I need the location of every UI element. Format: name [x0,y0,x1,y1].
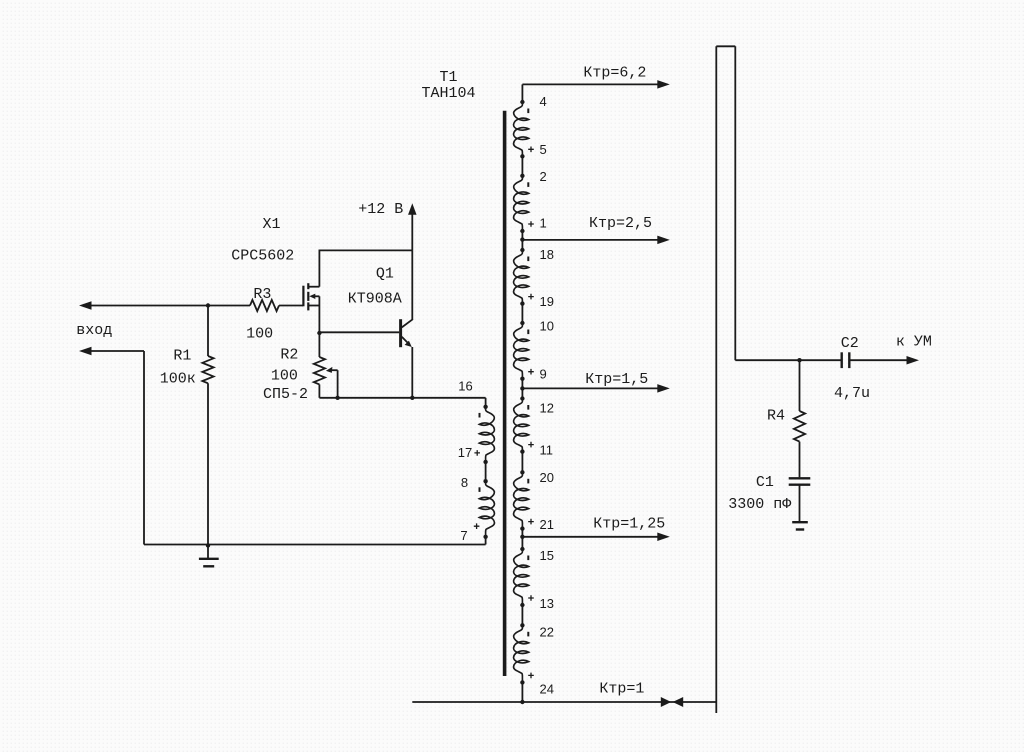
pin mark 8 start tick [479,487,481,492]
wire secondary 24 to bottom rail [521,682,523,702]
svg-text:21: 21 [540,517,554,532]
svg-text:15: 15 [540,548,554,563]
wire input upper with arrow [79,301,92,310]
wire feedback vertical right [734,46,736,360]
svg-text:9: 9 [540,367,547,382]
node wiper junction [335,396,339,400]
pin mark 22 start tick [527,632,529,637]
optocoupler MOSFET X1 drain lead [309,286,319,288]
wire +12V to collector [411,250,413,320]
wire output node horizontal [735,359,841,361]
svg-text:вход: вход [76,322,112,339]
wire feedback bottom stub [715,702,717,713]
svg-text:100к: 100к [160,371,196,388]
transistor Q1 collector [402,319,413,327]
transformer secondary winding 20-21 [520,470,524,474]
wire C1 to ground [799,485,801,523]
transformer secondary winding 12-11 [520,396,524,400]
pin mark 4 start tick [527,109,529,114]
potentiometer R2 wiper arrow [326,367,333,373]
resistor R1 [207,307,209,356]
wire primary interwinding [485,462,487,481]
svg-text:16: 16 [458,379,472,394]
resistor R3 [208,305,250,307]
svg-text:R3: R3 [253,286,271,303]
power +12V arrow [408,203,417,215]
transistor Q1 emitter with arrow [402,337,409,344]
transistor Q1 base bar [399,319,402,347]
svg-text:CPC5602: CPC5602 [231,248,294,265]
wire feedback vertical left [715,46,717,702]
svg-text:7: 7 [460,528,467,543]
wire bottom rail Ктр=1 [412,701,716,703]
transformer secondary winding 10-9 [520,321,524,325]
wire tap 21-15 with node [521,529,523,549]
svg-text:ТАН104: ТАН104 [421,85,475,102]
svg-text:C1: C1 [756,474,774,491]
transformer T1 core [503,111,507,676]
output arrow Ктр=1,25 [657,533,670,542]
node ground junction [206,543,210,547]
svg-text:R4: R4 [767,408,785,425]
svg-text:17: 17 [458,445,472,460]
pin mark 12 start tick [527,405,529,410]
node output junction [797,358,801,362]
wire tap 9-12 with node [521,379,523,399]
pin mark 16 start tick [479,413,481,418]
output arrow Ктр=2,5 [657,236,670,245]
pin mark 7 plus [474,523,480,529]
svg-text:19: 19 [540,294,554,309]
svg-text:24: 24 [540,681,554,696]
output arrows Ктр=1 double [661,697,671,707]
svg-text:Ктр=1,25: Ктр=1,25 [593,516,665,533]
svg-text:Ктр=1,5: Ктр=1,5 [585,371,648,388]
wire emitter down [411,347,413,398]
wire tap Ктр=1,5 [522,387,658,389]
svg-text:КТ908А: КТ908А [348,291,402,308]
svg-text:к УМ: к УМ [896,334,932,351]
transformer secondary winding 18-19 [520,248,524,252]
pin mark 13 plus [528,595,534,601]
svg-text:100: 100 [271,368,298,385]
pin mark 18 start tick [527,257,529,262]
svg-text:13: 13 [540,596,554,611]
ground symbol right [792,521,808,523]
wire base lead [319,331,399,333]
optocoupler MOSFET X1 channel [307,283,309,289]
wire primary bottom to ground rail [485,537,487,545]
ground symbol left [207,546,209,559]
pin mark 2 start tick [527,182,529,187]
svg-text:5: 5 [540,142,547,157]
svg-text:12: 12 [540,401,554,416]
resistor R4 [799,360,801,411]
pin mark 10 start tick [527,330,529,335]
transformer secondary winding 2-1 [520,174,524,178]
wire secondary 11-20 [521,452,523,473]
transformer primary winding 16-17 [483,405,487,409]
wire emitter to primary [412,397,485,399]
wire tap 1-18 with node [521,231,523,250]
pin mark 9 plus [528,369,534,375]
wire +12V rail [319,249,413,251]
wire secondary 13-22 [521,605,523,625]
pin mark 21 plus [528,519,534,525]
svg-text:Ктр=1: Ктр=1 [599,680,644,697]
pin mark 1 plus [528,221,534,227]
svg-text:Ктр=2,5: Ктр=2,5 [589,215,652,232]
svg-text:T1: T1 [439,69,457,86]
transformer secondary winding 15-13 [520,547,524,551]
svg-text:C2: C2 [841,335,859,352]
node emitter junction [410,396,414,400]
svg-text:R1: R1 [173,348,191,365]
svg-text:8: 8 [461,475,468,490]
svg-text:4,7u: 4,7u [834,385,870,402]
svg-text:10: 10 [540,319,554,334]
transformer secondary winding 22-24 [520,623,524,627]
svg-text:18: 18 [540,247,554,262]
wire input lower with arrow [79,347,92,356]
wire tap Ктр=1,25 [522,536,658,538]
svg-text:2: 2 [540,169,547,184]
pin mark 5 plus [528,147,534,153]
wire secondary 5-2 [521,156,523,176]
output arrow Ктр=6,2 [657,80,670,89]
svg-text:СП5-2: СП5-2 [263,386,308,403]
node junction R1 gate [206,303,210,307]
svg-text:11: 11 [540,443,554,458]
svg-text:1: 1 [540,216,547,231]
pin mark 17 plus [474,450,480,456]
capacitor C1 [789,477,811,479]
pin mark 24 plus [528,673,534,679]
svg-text:22: 22 [540,624,554,639]
svg-text:100: 100 [246,326,273,343]
svg-text:+12 В: +12 В [358,201,403,218]
svg-text:X1: X1 [262,216,280,233]
pin mark 20 start tick [527,479,529,484]
pin mark 11 plus [528,442,534,448]
svg-text:R2: R2 [280,347,298,364]
transformer primary winding 8-7 [483,479,487,483]
node base-R2 junction [317,331,321,335]
svg-text:3300 пФ: 3300 пФ [728,496,791,513]
svg-text:Q1: Q1 [376,265,394,282]
wire feedback top [716,45,735,47]
pin mark 19 plus [528,294,534,300]
transformer secondary winding 4-5 [520,100,524,104]
wire source to base node [318,296,320,333]
optocoupler MOSFET X1 gate [302,286,304,307]
wire C2 to output arrow [849,359,907,361]
wire secondary top lead [521,84,523,102]
wire ground rail [144,544,486,546]
resistor R2 (potentiometer СП5-2) [318,333,320,357]
wire secondary 19-10 [521,304,523,323]
optocoupler MOSFET X1 source lead [309,305,319,307]
svg-text:Ктр=6,2: Ктр=6,2 [583,65,646,82]
svg-text:4: 4 [540,94,547,109]
optocoupler MOSFET X1 body arrow [309,294,315,299]
output arrow Ктр=1,5 [657,384,670,393]
capacitor C2 [841,352,843,368]
wire tap Ктр=2,5 [522,239,658,241]
svg-text:20: 20 [540,470,554,485]
pin mark 15 start tick [527,556,529,561]
output arrow к УМ [907,356,920,365]
wire drain to +12V rail [318,250,320,287]
